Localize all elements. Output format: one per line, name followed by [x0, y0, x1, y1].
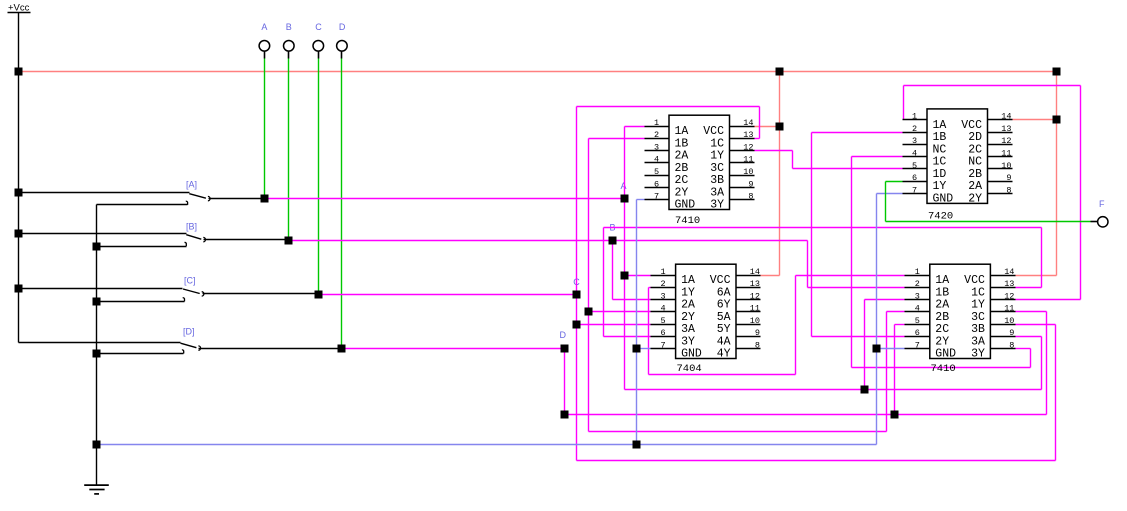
svg-text:3B: 3B [971, 323, 985, 336]
junction A bottom / U4 pin3 branch [861, 386, 869, 394]
IC U1 pin 9 stub [730, 187, 755, 189]
svg-text:5: 5 [654, 167, 659, 177]
svg-text:5A: 5A [717, 311, 731, 324]
junction node C at switch [315, 291, 323, 299]
IC U2 pin 2 stub [903, 132, 927, 134]
svg-text:VCC: VCC [961, 119, 982, 132]
IC U4 pin 10 stub [991, 324, 1016, 326]
svg-text:3Y: 3Y [710, 199, 724, 212]
switch [B] upper contact wire [19, 233, 187, 235]
net D into U4 pin5 [895, 324, 905, 326]
svg-text:1C: 1C [933, 156, 947, 169]
svg-text:1: 1 [661, 267, 666, 277]
svg-text:3: 3 [912, 136, 917, 146]
junction red at U1 pin14 [776, 123, 784, 131]
IC U3 pin 7 stub [651, 348, 676, 350]
junction GND-bus/switch-D [93, 350, 101, 358]
wire red vertical to U1/U3 VCC [779, 72, 781, 276]
junction node A [621, 195, 629, 203]
svg-text:2Y: 2Y [675, 187, 689, 200]
wire red vertical to U2/U4 VCC [1056, 72, 1058, 276]
IC U2 pin 5 stub [903, 168, 927, 170]
IC U4 pin 8 stub [991, 348, 1016, 350]
IC U1 pin 11 stub [730, 162, 755, 164]
IC U3 pin 6 stub [651, 336, 676, 338]
junction Vcc/switch-C [15, 285, 23, 293]
switch [A] lower contact hook [186, 201, 188, 205]
switch [D] lower contact wire [97, 353, 184, 355]
net B into U3 pin3 [613, 299, 651, 301]
IC U3 pin 11 stub [737, 311, 761, 313]
IC U3 pin 10 stub [737, 324, 761, 326]
svg-text:14: 14 [1004, 267, 1014, 277]
svg-text:7410: 7410 [675, 215, 700, 227]
svg-text:2C: 2C [935, 323, 949, 336]
svg-text:3: 3 [661, 291, 666, 301]
svg-text:10: 10 [750, 316, 760, 326]
junction C at U3 pin5 row [573, 321, 581, 329]
net U4-3Y from pin8 [1016, 348, 1031, 350]
svg-text:D: D [339, 22, 346, 32]
net NOT-A riser [795, 276, 797, 375]
net U1-1Y step down [792, 151, 794, 169]
switch [C] pole wire [203, 293, 319, 295]
net C top run to U1 pin13 [577, 106, 760, 108]
net NOT-B from U3 pin4 [589, 311, 651, 313]
net GND drop from U2 pin7 [876, 194, 878, 445]
net C into U3 pin5 [577, 324, 651, 326]
svg-text:2Y: 2Y [935, 335, 949, 348]
svg-text:1A: 1A [681, 274, 695, 287]
svg-text:1C: 1C [710, 137, 724, 150]
net B: switch pole run [289, 240, 808, 242]
IC U4 pin 13 stub [991, 287, 1016, 289]
IC U2 pin 12 stub [988, 144, 1013, 146]
svg-text:8: 8 [748, 192, 753, 202]
wire red U2 pin14 link [1013, 119, 1057, 121]
svg-text:GND: GND [935, 348, 956, 361]
net GND blue horizontal run [97, 444, 877, 446]
IC U4 pin 7 stub [905, 348, 930, 350]
net NOT-B bottom run [589, 431, 887, 433]
svg-text:NC: NC [968, 156, 982, 169]
switch [C] lever [183, 289, 200, 294]
switch [C] lower contact hook [183, 298, 185, 302]
net U4-1Y top run [904, 85, 1081, 87]
junction GND-bus/blue net [93, 441, 101, 449]
wire green input A vertical [264, 59, 266, 199]
svg-text:3C: 3C [710, 162, 724, 175]
switch [A] pole wire [209, 198, 265, 200]
svg-text:14: 14 [743, 118, 753, 128]
svg-text:C: C [315, 22, 322, 32]
svg-text:1: 1 [915, 267, 920, 277]
svg-text:B: B [286, 22, 292, 32]
wire green input D vertical [341, 59, 343, 349]
net A into U4 pin3 [865, 299, 905, 301]
IC U4 pin 4 stub [905, 311, 930, 313]
net U4-2Y into U2 pin2 [812, 132, 903, 134]
svg-text:1: 1 [654, 118, 659, 128]
svg-text:13: 13 [750, 279, 760, 289]
switch [B] lever [186, 235, 201, 240]
net B drop to U4 pin2 [807, 241, 809, 288]
net A into U4 pin9 [1016, 336, 1042, 338]
ground symbol [84, 485, 109, 494]
net U4-3Y under U4 run [852, 367, 1031, 369]
net B into U4 pin2 [808, 287, 905, 289]
svg-text:4: 4 [912, 149, 917, 159]
IC U4 pin 14 stub [991, 275, 1016, 277]
svg-text:9: 9 [755, 328, 760, 338]
junction Vcc/switch-B [15, 230, 23, 238]
svg-text:5: 5 [661, 316, 666, 326]
IC U3 pin 2 stub [651, 287, 676, 289]
connector A terminal [259, 41, 270, 52]
svg-text:13: 13 [743, 130, 753, 140]
IC U3 pin 12 stub [737, 299, 761, 301]
svg-text:7404: 7404 [677, 363, 702, 375]
svg-text:6: 6 [661, 328, 666, 338]
connector D terminal [337, 41, 348, 52]
junction Vcc/red rail [15, 68, 23, 76]
svg-text:12: 12 [1004, 291, 1014, 301]
IC U3 pin 5 stub [651, 324, 676, 326]
svg-text:2D: 2D [968, 131, 982, 144]
svg-text:2C: 2C [968, 143, 982, 156]
switch [D] upper contact wire [19, 342, 181, 344]
svg-text:GND: GND [933, 193, 954, 206]
IC U2 pin 14 stub [988, 119, 1013, 121]
svg-text:5: 5 [915, 316, 920, 326]
svg-text:2Y: 2Y [681, 311, 695, 324]
net NOT-A into U4 pin1 [796, 275, 905, 277]
svg-text:6: 6 [654, 179, 659, 189]
svg-text:5: 5 [912, 161, 917, 171]
switch [D] lower contact hook [182, 350, 184, 354]
net D riser to U4 pin5 [894, 325, 896, 415]
svg-text:8: 8 [755, 340, 760, 350]
svg-text:4: 4 [661, 304, 666, 314]
svg-text:10: 10 [1004, 316, 1014, 326]
net A to U1 pin1 [625, 126, 645, 128]
svg-text:12: 12 [743, 143, 753, 153]
net U1-1Y from pin12 [755, 150, 793, 152]
junction NOT-B at U3 pin4 row [585, 308, 593, 316]
svg-text:VCC: VCC [964, 274, 985, 287]
wire red U3 pin14 link [761, 275, 780, 277]
net D bottom run [565, 414, 1047, 416]
svg-text:6A: 6A [717, 286, 731, 299]
svg-text:1: 1 [912, 112, 917, 122]
net U4-3Y drop [1030, 349, 1032, 368]
svg-text:9: 9 [1009, 328, 1014, 338]
svg-text:3Y: 3Y [681, 335, 695, 348]
net C vertical column [576, 107, 578, 461]
IC U4 7410 body [930, 264, 991, 358]
svg-text:3: 3 [654, 143, 659, 153]
switch [A] upper contact wire [19, 192, 190, 194]
net A to U3 pin1 [625, 275, 651, 277]
junction node A at switch [261, 195, 269, 203]
svg-text:[B]: [B] [186, 222, 197, 232]
svg-text:4A: 4A [717, 335, 731, 348]
IC U4 pin 6 stub [905, 336, 930, 338]
switch [C] lower contact wire [97, 301, 185, 303]
svg-text:1B: 1B [935, 286, 949, 299]
connector F terminal [1091, 221, 1098, 223]
svg-text:[C]: [C] [184, 276, 196, 286]
svg-text:9: 9 [748, 179, 753, 189]
svg-text:4: 4 [915, 304, 920, 314]
net F long run to output [886, 221, 1091, 223]
svg-text:6: 6 [912, 173, 917, 183]
net NOT-C riser [603, 228, 605, 337]
junction node C [573, 291, 581, 299]
svg-text:7: 7 [654, 192, 659, 202]
net NOT-C drop to U4 pin13 [1041, 228, 1043, 288]
svg-text:1A: 1A [675, 125, 689, 138]
svg-text:2: 2 [661, 279, 666, 289]
net U4-1Y drop to U2 pin1 [903, 86, 905, 120]
svg-text:3A: 3A [710, 187, 724, 200]
IC U3 pin 9 stub [737, 336, 761, 338]
switch [B] pole hook [203, 237, 205, 241]
svg-text:1B: 1B [675, 137, 689, 150]
junction node B [609, 237, 617, 245]
svg-text:4: 4 [654, 155, 659, 165]
svg-text:12: 12 [1001, 136, 1011, 146]
IC U1 pin 13 stub [730, 138, 755, 140]
IC U2 pin 11 stub [988, 156, 1013, 158]
IC U1 pin 14 stub [730, 126, 755, 128]
junction node D at switch [338, 345, 346, 353]
junction GND at U4 pin7 row [873, 345, 881, 353]
net C riser to U4 pin10 [1055, 325, 1057, 461]
junction GND blue tee [633, 441, 641, 449]
svg-text:A: A [621, 181, 627, 191]
net U4-3Y into U2 pin4 [852, 156, 903, 158]
junction node D corner bottom [561, 411, 569, 419]
net F from U2 pin6 [886, 181, 903, 183]
svg-text:3B: 3B [710, 174, 724, 187]
net U4-2Y riser to U2 pin2 [811, 133, 813, 337]
net NOT-B into U1 pin2 [589, 138, 645, 140]
net GND link U4 pin7 [877, 348, 905, 350]
svg-text:7: 7 [912, 185, 917, 195]
IC U1 pin 4 stub [645, 162, 669, 164]
wire GND bus vertical [96, 205, 98, 486]
svg-text:1Y: 1Y [971, 299, 985, 312]
junction GND-bus/switch-C [93, 298, 101, 306]
wire +Vcc bus vertical [18, 13, 20, 343]
net GND drop from U1 pin7 [636, 200, 638, 445]
svg-text:8: 8 [1009, 340, 1014, 350]
net C drop at U1 pin13 [759, 107, 761, 139]
svg-text:6Y: 6Y [717, 299, 731, 312]
IC U2 pin 7 stub [903, 193, 927, 195]
svg-text:3: 3 [915, 291, 920, 301]
svg-text:1A: 1A [935, 274, 949, 287]
IC U1 pin 12 stub [730, 150, 755, 152]
net D into U4 pin11 [1016, 311, 1047, 313]
IC U1 pin 6 stub [645, 187, 669, 189]
net NOT-A from U3 pin2 [649, 287, 651, 289]
svg-text:3A: 3A [681, 323, 695, 336]
junction GND-bus/switch-B [93, 243, 101, 251]
net A branch up to U4 pin3 [864, 300, 866, 390]
IC U1 7410 body [669, 115, 730, 209]
svg-text:1B: 1B [933, 131, 947, 144]
IC U1 pin 2 stub [645, 138, 669, 140]
switch [C] upper contact wire [19, 288, 183, 290]
IC U2 pin 4 stub [903, 156, 927, 158]
IC U3 pin 1 stub [651, 275, 676, 277]
switch [B] pole wire [204, 239, 289, 241]
svg-text:1Y: 1Y [710, 150, 724, 163]
junction Vcc/switch-A [15, 189, 23, 197]
svg-text:2: 2 [915, 279, 920, 289]
junction A at U3 pin1 [621, 272, 629, 280]
IC U3 pin 14 stub [737, 275, 761, 277]
svg-text:6: 6 [915, 328, 920, 338]
switch [A] lower contact wire [97, 204, 188, 206]
svg-text:2B: 2B [968, 168, 982, 181]
svg-text:2A: 2A [968, 180, 982, 193]
IC U3 pin 13 stub [737, 287, 761, 289]
IC U1 pin 3 stub [645, 150, 669, 152]
svg-text:14: 14 [1001, 112, 1011, 122]
net U4-1Y right riser [1080, 86, 1082, 300]
svg-text:2A: 2A [935, 299, 949, 312]
junction red at U2 pin14 [1053, 116, 1061, 124]
IC U2 pin 9 stub [988, 181, 1013, 183]
IC U3 pin 8 stub [737, 348, 761, 350]
wire red U1 pin14 link [755, 126, 780, 128]
svg-text:[A]: [A] [186, 180, 197, 190]
IC U3 pin 4 stub [651, 311, 676, 313]
svg-text:7: 7 [661, 340, 666, 350]
IC U2 pin 13 stub [988, 132, 1013, 134]
IC U4 pin 2 stub [905, 287, 930, 289]
svg-text:1Y: 1Y [933, 180, 947, 193]
svg-text:10: 10 [1001, 161, 1011, 171]
svg-text:2: 2 [912, 124, 917, 134]
svg-text:2A: 2A [681, 299, 695, 312]
svg-text:11: 11 [1001, 149, 1011, 159]
net U4-2Y from pin6 [812, 336, 905, 338]
svg-text:2B: 2B [935, 311, 949, 324]
svg-text:1C: 1C [971, 286, 985, 299]
svg-text:2A: 2A [675, 150, 689, 163]
junction red rail / U2 drop [1053, 68, 1061, 76]
IC U4 pin 11 stub [991, 311, 1016, 313]
net U4-3Y riser to U2 pin4 [851, 157, 853, 368]
net U1-1Y into U2 pin5 [793, 168, 903, 170]
net D: switch pole run [342, 348, 565, 350]
svg-text:11: 11 [750, 304, 760, 314]
net C: switch pole to column [319, 294, 577, 296]
IC U2 pin 3 stub [903, 144, 927, 146]
net C into U1 pin13 [755, 138, 760, 140]
svg-text:F: F [1099, 199, 1105, 209]
svg-text:11: 11 [743, 155, 753, 165]
svg-text:VCC: VCC [703, 125, 724, 138]
svg-text:D: D [560, 330, 567, 340]
net A bottom run [625, 389, 1042, 391]
svg-text:13: 13 [1001, 124, 1011, 134]
svg-text:1D: 1D [933, 168, 947, 181]
switch [A] lever [189, 194, 206, 199]
net B drop to U3 pin3 [612, 241, 614, 300]
net GND link U1 pin7 [637, 199, 645, 201]
svg-text:[D]: [D] [183, 327, 195, 337]
net NOT-C from U3 pin6 [604, 336, 651, 338]
switch [B] lower contact hook [185, 242, 187, 246]
svg-text:GND: GND [675, 199, 696, 212]
switch [A] pole hook [208, 196, 210, 200]
junction node D corner top [561, 345, 569, 353]
IC U1 pin 8 stub [730, 199, 755, 201]
net D drop [564, 349, 566, 415]
switch [C] pole hook [202, 292, 204, 296]
svg-text:7420: 7420 [928, 211, 953, 223]
net A: switch pole to column [265, 198, 625, 200]
switch [D] pole hook [198, 346, 200, 350]
svg-text:NC: NC [933, 143, 947, 156]
connector C terminal [313, 41, 324, 52]
svg-text:2Y: 2Y [968, 193, 982, 206]
net NOT-B riser to U4 pin4 [886, 312, 888, 432]
IC U2 pin 10 stub [988, 168, 1013, 170]
net C bottom run [577, 460, 1056, 462]
switch [B] lower contact wire [97, 246, 187, 248]
net NOT-C into U4 pin13 [1016, 287, 1042, 289]
net A vertical column [624, 127, 626, 390]
wire red VCC rail horizontal [19, 71, 1057, 73]
svg-text:2: 2 [654, 130, 659, 140]
IC U2 pin 8 stub [988, 193, 1013, 195]
net D riser to U4 pin11 [1046, 312, 1048, 415]
net C into U4 pin10 [1016, 324, 1056, 326]
junction node B at switch [285, 237, 293, 245]
net F drop [885, 182, 887, 222]
junction GND at U3 pin7 row [633, 345, 641, 353]
svg-text:2B: 2B [675, 162, 689, 175]
svg-text:7: 7 [915, 340, 920, 350]
svg-text:5Y: 5Y [717, 323, 731, 336]
svg-text:1Y: 1Y [681, 286, 695, 299]
svg-text:12: 12 [750, 291, 760, 301]
svg-text:8: 8 [1006, 185, 1011, 195]
switch [D] lever [181, 343, 197, 348]
svg-text:1A: 1A [933, 119, 947, 132]
svg-text:A: A [261, 22, 267, 32]
svg-text:2C: 2C [675, 174, 689, 187]
svg-text:3C: 3C [971, 311, 985, 324]
svg-text:3Y: 3Y [971, 348, 985, 361]
switch [D] pole wire [199, 348, 342, 350]
IC U1 pin 5 stub [645, 175, 669, 177]
junction red rail / U1 drop [776, 68, 784, 76]
svg-text:13: 13 [1004, 279, 1014, 289]
net NOT-B vertical column [588, 139, 590, 432]
svg-text:10: 10 [743, 167, 753, 177]
net U4-1Y to U2 pin1: bottom link [1016, 299, 1081, 301]
IC U4 pin 1 stub [905, 275, 930, 277]
wire green input B vertical [288, 59, 290, 241]
IC U4 pin 9 stub [991, 336, 1016, 338]
